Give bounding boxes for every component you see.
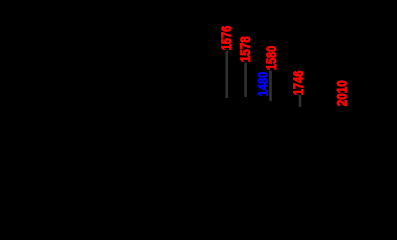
svg-text:1580: 1580: [264, 46, 279, 71]
svg-text:1746: 1746: [291, 70, 306, 95]
svg-text:1576: 1576: [219, 26, 234, 51]
svg-text:1480: 1480: [254, 72, 270, 97]
svg-text:2010: 2010: [333, 80, 349, 106]
svg-text:1578: 1578: [237, 36, 253, 62]
peak marker line 1578: [244, 63, 247, 98]
peak marker line 1746: [299, 95, 302, 107]
spectrum peak-label chart: [0, 0, 397, 154]
peak marker line 1580: [269, 71, 272, 102]
peak marker line 1576: [226, 51, 229, 98]
